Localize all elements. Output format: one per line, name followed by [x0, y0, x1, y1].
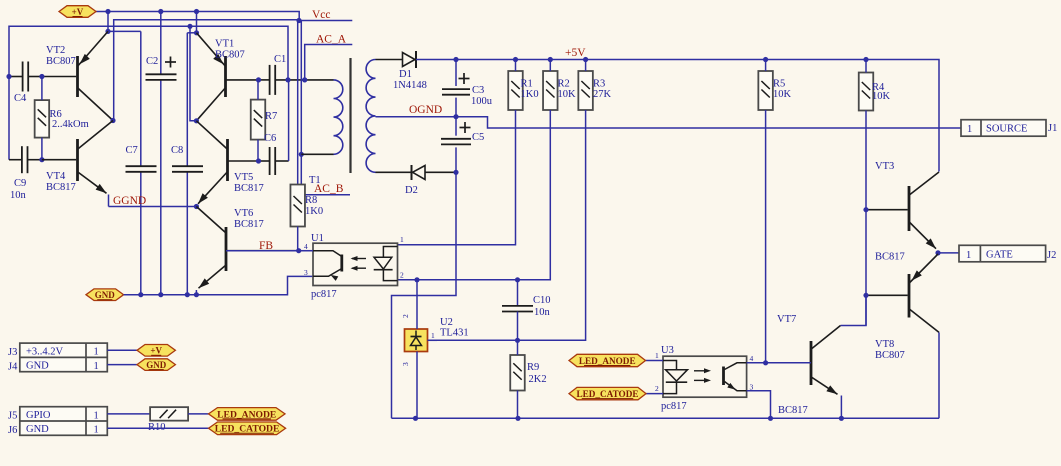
svg-text:GATE: GATE	[986, 249, 1013, 260]
svg-text:1K0: 1K0	[521, 89, 539, 100]
svg-text:2: 2	[655, 384, 659, 393]
svg-text:TL431: TL431	[440, 328, 469, 339]
svg-text:2: 2	[400, 271, 404, 280]
transistor VT4	[76, 139, 79, 181]
wire FB net	[226, 250, 313, 252]
node GGND/VT6 collector	[194, 204, 199, 209]
resistor R7	[251, 100, 266, 140]
svg-text:GND: GND	[95, 290, 116, 300]
transistor VT8	[908, 274, 911, 318]
svg-text:+V: +V	[72, 7, 84, 17]
svg-text:BC817: BC817	[46, 182, 76, 193]
svg-text:J6: J6	[8, 425, 17, 436]
wire VT7 collector to VT8 base node	[841, 295, 867, 325]
svg-text:BC807: BC807	[215, 50, 245, 61]
resistor R3	[578, 71, 593, 110]
optocoupler U1 pc817	[313, 243, 398, 285]
svg-text:2K2: 2K2	[529, 374, 547, 385]
wire Vcc label stub	[299, 20, 352, 22]
svg-text:2..4kOm: 2..4kOm	[52, 119, 89, 130]
wire GGND rail	[109, 206, 197, 208]
svg-text:1N4148: 1N4148	[393, 80, 427, 91]
power flag GND	[86, 289, 124, 301]
svg-text:GND: GND	[26, 361, 49, 372]
wire R5 to U3 pin4 / VT7 base	[765, 110, 767, 363]
svg-text:R1: R1	[521, 79, 533, 90]
svg-text:BC817: BC817	[234, 219, 264, 230]
svg-text:1: 1	[94, 410, 99, 421]
svg-text:C5: C5	[472, 132, 484, 143]
svg-text:BC807: BC807	[875, 350, 905, 361]
svg-text:U2: U2	[440, 317, 453, 328]
wire OGND net	[376, 117, 962, 128]
svg-text:R9: R9	[527, 362, 539, 373]
svg-text:10K: 10K	[872, 91, 891, 102]
svg-text:C2: C2	[146, 56, 158, 67]
capacitor C6	[269, 147, 271, 175]
connector J5/J6	[20, 407, 108, 436]
svg-text:27K: 27K	[593, 89, 612, 100]
svg-text:1: 1	[400, 235, 404, 244]
wire VT8 collector to bottom rail	[938, 332, 940, 418]
svg-text:R2: R2	[558, 79, 570, 90]
svg-text:J2: J2	[1047, 250, 1056, 261]
power flag +V (J3)	[137, 345, 175, 357]
wire +V stub to VT2 emitter	[107, 12, 109, 32]
svg-text:U3: U3	[661, 345, 674, 356]
transistor VT3	[908, 186, 911, 231]
capacitor C9	[21, 146, 23, 173]
wire Vcc rail (VT2/VT4 collector feed)	[114, 20, 299, 121]
svg-text:R8: R8	[305, 195, 317, 206]
wire Vcc node down to primary bottom / AC_B	[301, 21, 350, 195]
wire J4 to GND flag	[107, 364, 137, 366]
svg-text:C7: C7	[126, 145, 138, 156]
wire VT1/VT5 collector feeder	[190, 26, 196, 121]
regulator U2 TL431	[405, 329, 428, 352]
svg-text:R7: R7	[265, 111, 277, 122]
wire bottom rail	[392, 417, 940, 419]
wire +V down to Vcc node and R8	[297, 21, 299, 185]
resistor R8	[290, 185, 305, 227]
node C10 top	[515, 277, 520, 282]
svg-text:pc817: pc817	[311, 289, 337, 300]
capacitor C3	[455, 60, 457, 87]
svg-text:VT2: VT2	[46, 45, 65, 56]
svg-text:BC817: BC817	[778, 405, 808, 416]
svg-text:J1: J1	[1048, 123, 1057, 134]
svg-text:3: 3	[401, 362, 410, 366]
svg-text:T1: T1	[309, 175, 321, 186]
connector J3/J4	[20, 343, 108, 372]
junction dots bottom rail	[413, 416, 418, 421]
power flag GND (J4)	[137, 359, 175, 371]
resistor R4	[859, 73, 874, 111]
capacitor C1	[269, 65, 271, 95]
svg-text:R5: R5	[773, 79, 785, 90]
svg-text:C4: C4	[14, 93, 27, 104]
svg-text:VT4: VT4	[46, 171, 66, 182]
wire C7 column	[140, 31, 142, 166]
svg-text:R3: R3	[593, 79, 605, 90]
svg-text:1: 1	[967, 124, 972, 135]
svg-text:LED_CATODE: LED_CATODE	[577, 389, 639, 399]
node VT1 emitter	[194, 30, 199, 35]
svg-text:C9: C9	[14, 178, 26, 189]
svg-text:R10: R10	[148, 422, 166, 433]
svg-text:4: 4	[750, 354, 754, 363]
node VT1/VT5 collectors	[194, 118, 199, 123]
optocoupler U3 pc817	[663, 356, 747, 397]
svg-text:VT7: VT7	[777, 314, 796, 325]
svg-text:OGND: OGND	[409, 104, 442, 116]
svg-text:J4: J4	[8, 361, 18, 372]
svg-text:VT6: VT6	[234, 208, 253, 219]
wire U2 cathode up	[416, 280, 418, 329]
svg-text:1: 1	[431, 331, 435, 340]
node U2 cathode tap	[414, 277, 419, 282]
svg-text:1: 1	[94, 347, 99, 358]
svg-text:C8: C8	[171, 145, 183, 156]
wire cross-coupling rail AC_A (C4 to C1)	[9, 26, 288, 159]
wire C6 to AC_A node	[288, 80, 290, 161]
wire VT7 emitter to bottom rail	[840, 396, 842, 419]
svg-text:GPIO: GPIO	[26, 410, 51, 421]
svg-text:LED_ANODE: LED_ANODE	[579, 356, 636, 366]
wire secondary bottom lead to D2	[376, 171, 412, 173]
wire GND rail	[124, 276, 313, 294]
transformer T1 core	[349, 58, 351, 173]
svg-text:VT1: VT1	[215, 39, 234, 50]
wire U2 anode down	[416, 352, 418, 419]
svg-text:10K: 10K	[773, 89, 792, 100]
node D2/C5	[453, 170, 458, 175]
wire J5 to R10	[107, 413, 150, 415]
svg-text:1: 1	[655, 351, 659, 360]
wire GATE to J2	[938, 252, 959, 254]
resistor R10	[150, 407, 188, 421]
resistor R9	[510, 355, 525, 391]
wire U1 pin4 stub	[299, 250, 313, 252]
svg-text:VT3: VT3	[875, 161, 894, 172]
svg-text:1K0: 1K0	[305, 206, 323, 217]
connector J2 GATE	[959, 245, 1046, 261]
node primary bottom tap	[299, 152, 304, 157]
diode D2	[411, 165, 413, 180]
wire R2 to U1 pin2 / U2 cathode	[398, 110, 551, 280]
capacitor C5	[455, 117, 457, 136]
node on AC_A rail	[187, 24, 192, 29]
svg-text:SOURCE: SOURCE	[986, 124, 1027, 135]
svg-text:3: 3	[304, 268, 308, 277]
wire +V stub to VT1 emitter	[196, 12, 198, 33]
svg-text:VT8: VT8	[875, 339, 894, 350]
svg-text:1: 1	[966, 250, 971, 261]
transformer T1 primary winding	[334, 80, 343, 154]
svg-text:10n: 10n	[10, 190, 27, 201]
svg-text:GGND: GGND	[113, 195, 146, 207]
svg-text:J5: J5	[8, 411, 17, 422]
wire VT6 emitter stub	[195, 290, 197, 295]
svg-text:C1: C1	[274, 54, 286, 65]
svg-text:Vcc: Vcc	[312, 9, 331, 21]
net flag LED_ANODE (J5)	[209, 408, 286, 421]
svg-text:10n: 10n	[534, 307, 551, 318]
connector J1 SOURCE	[961, 120, 1046, 137]
resistor R6	[35, 100, 50, 138]
transistor VT5	[226, 139, 229, 181]
svg-text:BC807: BC807	[46, 56, 76, 67]
svg-text:4: 4	[304, 242, 308, 251]
wire C2 column	[160, 12, 162, 75]
wire +5V rail	[416, 60, 939, 172]
wire R1 to U1 pin1	[398, 110, 516, 245]
wire emitter to C8	[187, 32, 196, 34]
svg-text:D1: D1	[399, 69, 412, 80]
wire U2 ref stub	[428, 339, 438, 341]
svg-text:pc817: pc817	[661, 401, 687, 412]
wire R10 to LED_ANODE flag	[188, 413, 208, 415]
svg-text:VT5: VT5	[234, 172, 253, 183]
svg-text:1: 1	[94, 361, 99, 372]
svg-text:C10: C10	[533, 295, 551, 306]
svg-text:GND: GND	[146, 360, 167, 370]
junction dots on GND rail	[138, 292, 143, 297]
svg-text:C6: C6	[264, 133, 276, 144]
node VT2 emitter	[105, 29, 110, 34]
node GATE	[935, 250, 940, 255]
wire secondary top lead to D1	[376, 59, 403, 61]
junction dots on +5V rail	[453, 57, 458, 62]
svg-text:GND: GND	[26, 424, 49, 435]
svg-text:+3..4.2V: +3..4.2V	[26, 346, 64, 357]
node Vcc junction	[296, 18, 301, 23]
wire VT4 emitter to GGND rail	[108, 195, 110, 207]
wire J3 to +V flag	[107, 349, 137, 351]
svg-text:BC817: BC817	[234, 183, 264, 194]
capacitor C2	[146, 73, 177, 75]
capacitor C8	[172, 165, 203, 167]
wire J6 to LED_CATODE flag	[107, 427, 208, 429]
wire U3 pin3 to bottom rail	[747, 391, 771, 419]
svg-text:J3: J3	[8, 347, 17, 358]
transformer T1 secondary winding	[366, 60, 375, 173]
svg-text:D2: D2	[405, 185, 418, 196]
wire R3 to U2 ref	[428, 110, 586, 340]
resistor R2	[543, 71, 558, 110]
net flag LED_CATODE (J6)	[209, 422, 286, 435]
transistor VT2	[76, 56, 79, 97]
svg-text:10K: 10K	[558, 89, 577, 100]
node VT2/VT4 collectors	[110, 118, 115, 123]
wire emitter to C7	[108, 30, 141, 32]
resistor R1	[508, 71, 523, 110]
capacitor C10	[517, 280, 519, 306]
svg-text:BC817: BC817	[875, 252, 905, 263]
node FB	[296, 248, 301, 253]
node OGND/C3	[453, 114, 458, 119]
svg-text:2: 2	[401, 314, 410, 318]
capacitor C7	[126, 165, 157, 167]
resistor R5	[758, 71, 773, 110]
transistor VT6	[225, 227, 228, 271]
svg-text:AC_A: AC_A	[316, 34, 347, 46]
svg-text:C3: C3	[472, 85, 484, 96]
wire primary bottom lead	[301, 153, 333, 155]
wire +V top rail	[96, 12, 299, 21]
wire D2 node down and left to bottom rail	[392, 172, 457, 418]
node U2 ref / C10 / R9	[515, 338, 520, 343]
capacitor C4	[22, 62, 24, 92]
transistor VT1	[224, 56, 227, 97]
svg-text:+V: +V	[150, 346, 162, 356]
svg-text:U1: U1	[311, 233, 324, 244]
svg-text:100u: 100u	[471, 96, 493, 107]
wire U3 pin4 to VT7 base	[747, 362, 811, 364]
net flag LED_CATODE (U3)	[646, 393, 663, 395]
junction dots on +V rail	[105, 9, 110, 14]
wire AC_A label stub	[305, 45, 353, 80]
transistor VT7	[810, 341, 813, 385]
svg-text:+5V: +5V	[565, 47, 586, 59]
net flag LED_ANODE (U3)	[646, 360, 664, 362]
diode D1 1N4148	[403, 53, 416, 67]
power flag +V	[59, 6, 96, 18]
wire R4 to VT3/VT8 bases	[865, 111, 867, 326]
wire C8 column	[186, 33, 188, 167]
svg-text:1: 1	[94, 425, 99, 436]
